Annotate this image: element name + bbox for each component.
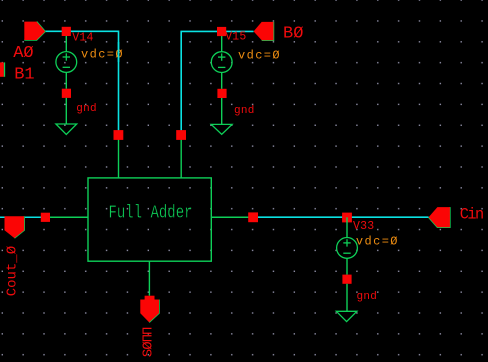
svg-text:vdc=Ø: vdc=Ø <box>238 48 281 62</box>
junction <box>217 89 226 98</box>
ground <box>56 124 77 134</box>
svg-text:BØ: BØ <box>283 24 303 43</box>
svg-text:gnd: gnd <box>76 103 97 115</box>
junction <box>62 89 71 98</box>
pin B0 <box>254 22 274 40</box>
wire stub block Cin <box>211 216 253 218</box>
pin Cout_0 <box>5 216 25 238</box>
wire stub to block pin B <box>180 135 182 178</box>
svg-text:Cout_Ø: Cout_Ø <box>4 246 20 296</box>
pin Cin <box>429 207 450 227</box>
voltage source V14 <box>56 31 77 88</box>
pin A0 <box>24 22 45 40</box>
full adder block U1 <box>88 178 211 261</box>
svg-text:gnd: gnd <box>357 291 378 303</box>
wire stub block S0 <box>148 261 150 296</box>
ground <box>336 311 357 321</box>
wire to gnd <box>65 98 67 124</box>
junction <box>248 212 258 222</box>
junction <box>342 275 351 284</box>
pin B1 <box>0 62 4 76</box>
junction <box>217 27 226 36</box>
ground <box>211 124 232 134</box>
svg-text:vdc=Ø: vdc=Ø <box>356 234 399 248</box>
wire stub to block pin A <box>118 135 120 178</box>
wire stub block Cout <box>45 216 88 218</box>
svg-text:V15: V15 <box>225 31 246 44</box>
junction <box>114 130 124 140</box>
svg-text:Full Adder: Full Adder <box>109 203 193 224</box>
wire to gnd <box>221 98 223 124</box>
wire net Cin <box>253 216 429 218</box>
svg-text:gnd: gnd <box>234 105 255 117</box>
svg-text:vdc=Ø: vdc=Ø <box>81 48 124 62</box>
junction <box>62 27 71 36</box>
voltage source V15 <box>211 32 232 89</box>
svg-text:Cin: Cin <box>460 205 483 223</box>
wire net B0 <box>181 31 253 135</box>
junction <box>41 213 50 222</box>
svg-text:SØΠΠ: SØΠΠ <box>140 327 156 357</box>
wire net Cout_0 <box>0 216 45 218</box>
svg-text:AØ: AØ <box>13 44 33 63</box>
wire net A0 <box>45 31 118 135</box>
wire <box>118 42 120 62</box>
svg-text:B1: B1 <box>14 65 34 84</box>
svg-text:V14: V14 <box>72 32 93 45</box>
junction <box>176 130 186 140</box>
pin S0 <box>140 296 159 323</box>
voltage source V33 <box>337 217 358 274</box>
wire to gnd <box>346 284 348 312</box>
svg-text:V33: V33 <box>353 220 374 233</box>
junction <box>342 213 352 223</box>
